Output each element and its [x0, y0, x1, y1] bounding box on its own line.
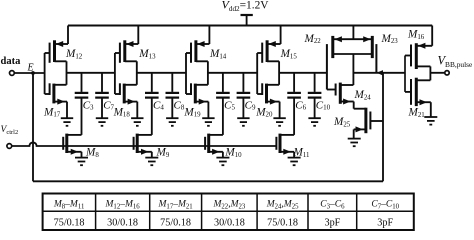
transistor M25 source lead with arrow — [354, 126, 366, 138]
ground at M21 source — [424, 117, 437, 125]
table header row — [53, 200, 400, 211]
ground at M9 source — [145, 158, 158, 166]
transistor M13 drain lead — [125, 61, 137, 85]
transistor M10 gate bar — [204, 137, 206, 150]
transistor M8 source lead with arrow — [67, 149, 82, 158]
transistor M8 gate bar — [62, 137, 64, 150]
transistor M8 drain lead — [67, 134, 82, 136]
wire gate stub pmos M14 — [186, 52, 191, 54]
Vdd2 supply bar tap — [241, 15, 253, 26]
transistor M11 gate bar — [275, 137, 277, 150]
capacitor C5 — [216, 73, 230, 135]
svg-text:E: E — [27, 63, 34, 74]
wire stage3 output — [208, 72, 257, 74]
transistor M21 source lead with arrow — [416, 99, 431, 117]
transistor M14 channel — [194, 40, 197, 62]
wire stage2 output — [137, 72, 186, 74]
transistor M22 gate bar — [326, 44, 328, 89]
Vctrl2 terminal — [7, 144, 12, 149]
wire gate stub nmos M17 — [45, 93, 50, 95]
transistor M9 source lead with arrow — [137, 149, 152, 158]
transistor M16 gate bar — [410, 45, 412, 67]
transistor M22 channel — [331, 36, 334, 58]
wire gate stub pmos M12 — [45, 52, 50, 54]
ground at M19 source — [202, 118, 214, 126]
wire M22 M23 drains — [333, 54, 373, 85]
transistor M12 drain lead — [55, 61, 67, 85]
capacitor C6 — [287, 73, 301, 135]
transistor M21 drain lead — [416, 79, 430, 81]
transistor M24 gate bar — [335, 84, 337, 96]
wire output VBB pulse — [430, 72, 445, 74]
output terminal VBB pulse — [445, 71, 449, 75]
table frame and grid — [43, 194, 414, 231]
capacitor C9 — [237, 73, 251, 118]
transistor M11 source lead with arrow — [280, 149, 294, 158]
svg-text:75/0.18: 75/0.18 — [267, 218, 298, 229]
transistor M8 channel — [65, 134, 68, 153]
transistor M18 source lead with arrow — [124, 99, 137, 119]
wire M22 M23 common source with arrows — [333, 26, 373, 43]
transistor M18 channel — [123, 84, 126, 104]
table value row — [54, 218, 394, 229]
transistor M12 gate bar — [49, 43, 51, 63]
svg-text:75/0.18: 75/0.18 — [54, 218, 85, 229]
ground at capacitor C9 — [237, 118, 249, 126]
ground at M20 source — [273, 118, 285, 126]
svg-text:75/0.18: 75/0.18 — [160, 218, 191, 229]
transistor M15 channel — [266, 40, 269, 62]
transistor M25 channel — [364, 108, 367, 134]
transistor M20 gate bar — [261, 83, 263, 95]
transistor M10 drain lead — [209, 134, 223, 136]
svg-text:3pF: 3pF — [324, 218, 340, 229]
ground at capacitor C7 — [96, 118, 108, 126]
ground at M10 source — [216, 158, 229, 166]
ground at M25 source — [348, 139, 361, 147]
transistor M9 channel — [136, 134, 139, 153]
wire stage4 output — [279, 72, 327, 74]
Vdd2 rail wire — [68, 25, 432, 27]
transistor M24 source lead with arrow — [340, 99, 353, 109]
svg-text:3pF: 3pF — [377, 218, 393, 229]
wire gate stub pmos M15 — [257, 52, 262, 54]
transistor M18 gate bar — [119, 83, 121, 95]
svg-text:data: data — [1, 56, 22, 67]
wire node E down — [32, 73, 34, 181]
ground at M17 source — [61, 118, 73, 126]
transistor M14 drain lead — [196, 61, 208, 85]
transistor M23 gate bar — [375, 44, 377, 72]
svg-text:30/0.18: 30/0.18 — [107, 218, 138, 229]
transistor M11 channel — [279, 134, 282, 153]
transistor M14 source lead with arrow — [196, 26, 210, 48]
transistor M16 source lead with arrow — [416, 26, 432, 49]
transistor M16 drain lead — [416, 66, 430, 80]
transistor M20 channel — [265, 84, 268, 104]
transistor M9 gate bar — [133, 137, 135, 150]
ground at M11 source — [288, 158, 301, 166]
wire data to node E — [14, 72, 44, 74]
transistor M21 channel — [415, 78, 418, 106]
transistor M25 gate lead — [370, 120, 383, 122]
wire gate stub pmos M13 — [115, 52, 120, 54]
node gate stage1 vertical — [44, 53, 46, 94]
ground at M18 source — [131, 118, 143, 126]
transistor M19 gate bar — [190, 83, 192, 95]
transistor M13 source lead with arrow — [125, 26, 139, 48]
transistor M15 source lead with arrow — [267, 26, 281, 48]
transistor M15 gate bar — [261, 43, 263, 63]
transistor M17 source lead with arrow — [54, 99, 67, 119]
transistor M13 channel — [123, 40, 126, 62]
wire drain node to inverter input with junction arrow — [353, 70, 405, 75]
wire gate stub nmos M19 — [186, 93, 191, 95]
transistor M11 drain lead — [280, 134, 294, 136]
wire stage1 output — [67, 72, 115, 74]
transistor M20 drain lead — [267, 84, 280, 86]
transistor M20 source lead with arrow — [267, 99, 280, 119]
wire M24 gate stub — [327, 89, 336, 91]
transistor M17 drain lead — [54, 84, 67, 86]
node gate stage3 vertical — [185, 53, 187, 94]
transistor M9 drain lead — [137, 134, 152, 136]
transistor M19 channel — [194, 84, 197, 104]
Vctrl2 wire with hop over E — [12, 142, 277, 146]
wire gate stub nmos M18 — [115, 93, 120, 95]
capacitor C8 — [166, 73, 180, 118]
wire feedback up to M25 gate node — [382, 73, 384, 182]
capacitor C4 — [145, 73, 159, 135]
capacitor C7 — [95, 73, 109, 118]
node gate stage4 vertical — [256, 53, 258, 94]
transistor M10 source lead with arrow — [209, 149, 223, 158]
transistor M17 gate bar — [49, 83, 51, 95]
ground at M8 source — [75, 158, 88, 166]
transistor M25 drain lead — [354, 108, 366, 110]
transistor M18 drain lead — [124, 84, 137, 86]
transistor M24 drain lead — [340, 84, 353, 86]
ground at capacitor C10 — [308, 118, 320, 126]
capacitor C3 — [75, 73, 89, 135]
transistor M16 channel — [415, 43, 418, 69]
transistor M17 channel — [52, 84, 55, 104]
wire gate stub nmos M20 — [257, 93, 262, 95]
transistor M12 source lead with arrow — [55, 26, 69, 48]
svg-text:Vdd2=1.2V: Vdd2=1.2V — [222, 0, 270, 13]
ground at capacitor C8 — [166, 118, 178, 126]
transistor M19 drain lead — [195, 84, 208, 86]
transistor M23 channel — [371, 36, 374, 58]
svg-text:30/0.18: 30/0.18 — [214, 218, 245, 229]
data input terminal — [10, 71, 15, 76]
transistor M25 gate bar — [369, 112, 371, 130]
node inverter input vertical — [405, 56, 411, 92]
capacitor C10 — [308, 73, 322, 118]
transistor M10 channel — [207, 134, 210, 153]
transistor M14 gate bar — [190, 43, 192, 63]
transistor M24 channel — [339, 83, 342, 104]
transistor M12 channel — [53, 40, 56, 62]
node E junction dot — [31, 71, 35, 75]
transistor M21 gate bar — [410, 79, 412, 105]
transistor M19 source lead with arrow — [195, 99, 208, 119]
transistor M13 gate bar — [119, 43, 121, 63]
wire bottom feedback — [33, 180, 383, 182]
transistor M15 drain lead — [267, 61, 279, 85]
node gate stage2 vertical — [114, 53, 116, 94]
